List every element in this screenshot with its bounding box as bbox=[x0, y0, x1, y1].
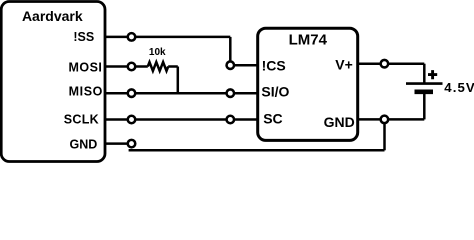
svg-text:Aardvark: Aardvark bbox=[22, 8, 83, 24]
battery BT1 negative plate bbox=[415, 90, 434, 95]
wire MISO to SI/O bbox=[105, 92, 258, 95]
svg-text:SCLK: SCLK bbox=[64, 112, 99, 126]
svg-text:GND: GND bbox=[324, 114, 355, 130]
wire battery positive stub bbox=[423, 64, 426, 84]
wire into LM74 !CS pin bbox=[230, 64, 257, 67]
svg-text:LM74: LM74 bbox=[289, 31, 328, 48]
battery plus sign bbox=[428, 70, 437, 79]
svg-text:SC: SC bbox=[263, 111, 282, 127]
node GND pin terminal bbox=[128, 140, 136, 148]
IC U2 LM74 temperature sensor box bbox=[258, 28, 358, 140]
node !CS pin terminal bbox=[227, 61, 235, 69]
node SI/O pin terminal bbox=[227, 89, 235, 97]
svg-text:V+: V+ bbox=[335, 56, 353, 72]
node GND junction terminal bbox=[381, 116, 389, 124]
node MOSI pin terminal bbox=[128, 63, 136, 71]
node V+ pin terminal bbox=[381, 60, 389, 67]
wire LM74 V+ to battery top bbox=[358, 62, 425, 65]
wire GND pin stub bbox=[105, 142, 132, 145]
resistor R1 10k zigzag bbox=[148, 62, 168, 71]
IC U1 Aardvark adapter box bbox=[1, 2, 105, 162]
svg-text:SI/O: SI/O bbox=[261, 84, 289, 100]
wire SCLK to SC bbox=[105, 118, 258, 121]
wire !SS vertical drop to !CS bbox=[229, 37, 232, 65]
svg-text:4.5V: 4.5V bbox=[444, 80, 474, 95]
node MISO pin terminal bbox=[128, 89, 136, 97]
node SCLK pin terminal bbox=[128, 116, 136, 124]
node SC pin terminal bbox=[227, 116, 235, 124]
svg-text:GND: GND bbox=[70, 138, 98, 152]
wire LM74 GND to battery bottom bbox=[358, 118, 425, 121]
svg-text:10k: 10k bbox=[149, 47, 166, 58]
wire MOSI pin to resistor bbox=[105, 65, 148, 68]
wire !SS horizontal from Aardvark !SS pin bbox=[105, 36, 230, 39]
svg-text:MISO: MISO bbox=[69, 85, 103, 99]
svg-text:!CS: !CS bbox=[262, 57, 286, 73]
wire vertical drop joining MISO net (junction T) bbox=[177, 67, 180, 95]
wire ground bottom run bbox=[129, 149, 385, 152]
svg-text:!SS: !SS bbox=[73, 30, 94, 44]
battery BT1 positive plate bbox=[406, 82, 443, 85]
wire battery negative stub bbox=[423, 92, 426, 120]
wire ground rise to LM74 GND node bbox=[383, 119, 386, 150]
svg-text:MOSI: MOSI bbox=[68, 60, 102, 74]
node !SS pin terminal bbox=[128, 33, 136, 41]
wire resistor to corner bbox=[168, 65, 178, 68]
